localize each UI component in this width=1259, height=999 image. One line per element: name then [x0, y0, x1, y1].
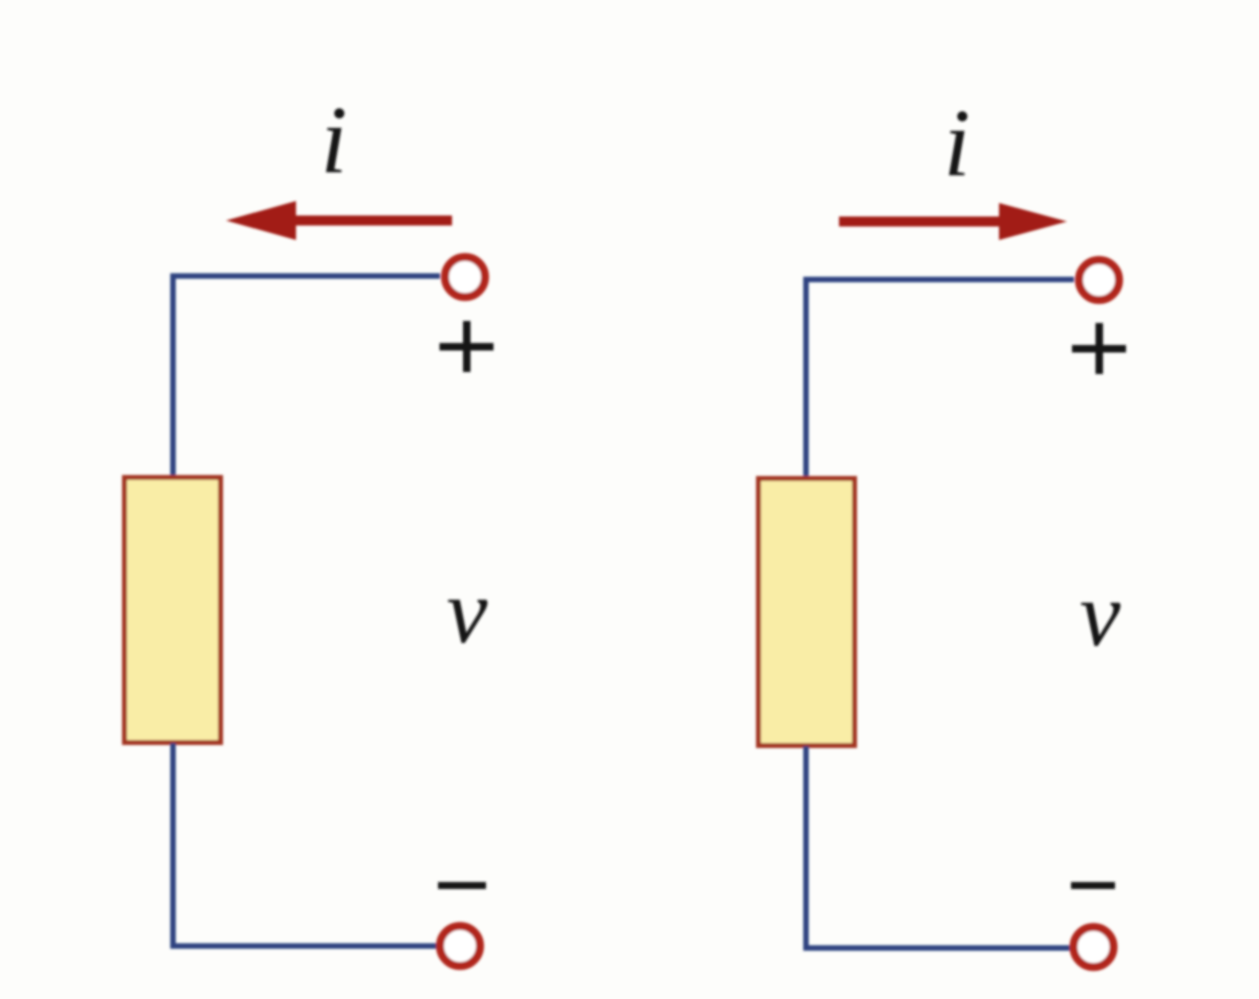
plus polarity symbol (right circuit)	[1072, 323, 1126, 374]
minus polarity symbol (left circuit)	[438, 882, 486, 889]
wire: left circuit top horizontal + left vertical segment	[173, 276, 440, 477]
svg-text:i: i	[321, 86, 348, 193]
svg-text:i: i	[944, 89, 971, 196]
terminal node circle, top right (right circuit)	[1079, 260, 1119, 300]
wire: right circuit bottom vertical + bottom horizontal segment	[806, 746, 1071, 948]
current direction arrow i, pointing left (left circuit)	[226, 201, 452, 240]
terminal node circle, bottom right (left circuit)	[440, 926, 480, 966]
terminal node circle, top right (left circuit)	[445, 257, 485, 297]
wire: left circuit bottom vertical + bottom horizontal segment	[173, 743, 438, 946]
terminal node circle, bottom right (right circuit)	[1074, 927, 1114, 967]
wire: right circuit top horizontal + left vertical segment	[806, 280, 1074, 479]
circuit element box (left circuit)	[125, 478, 221, 743]
current direction arrow i, pointing right (right circuit)	[839, 203, 1067, 240]
svg-text:v: v	[447, 560, 488, 662]
minus polarity symbol (right circuit)	[1071, 882, 1115, 889]
circuit element box (right circuit)	[759, 479, 855, 746]
plus polarity symbol (left circuit)	[440, 321, 494, 372]
svg-text:v: v	[1080, 563, 1121, 665]
